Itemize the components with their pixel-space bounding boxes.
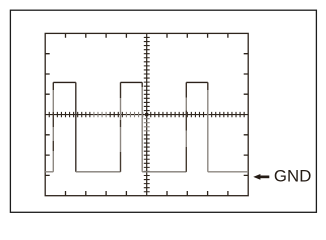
svg-text:GND: GND — [274, 167, 312, 186]
